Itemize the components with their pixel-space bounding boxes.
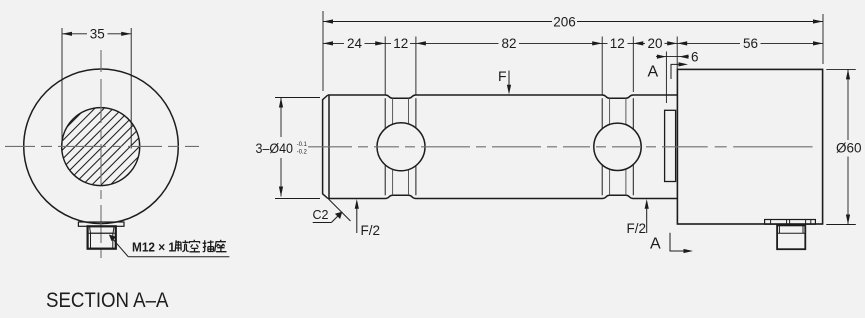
svg-text:F/2: F/2 <box>627 221 647 236</box>
svg-text:Ø60: Ø60 <box>836 140 862 155</box>
extension lines top dims <box>323 11 823 103</box>
outer circle <box>24 69 179 224</box>
svg-text:A: A <box>648 64 659 81</box>
narrow flange between shaft and block <box>665 110 676 181</box>
right connector flange <box>765 220 816 225</box>
svg-text:206: 206 <box>553 14 576 29</box>
hole circle 1 <box>377 123 425 171</box>
dim 35 line + arrows <box>62 33 131 35</box>
right block (O60 housing) <box>677 69 822 224</box>
svg-text:A: A <box>650 235 661 252</box>
glyph cha <box>203 240 214 251</box>
svg-text:35: 35 <box>90 27 105 42</box>
svg-text:-0.1: -0.1 <box>297 141 307 148</box>
hole circle 2 <box>594 123 641 170</box>
svg-text:F/2: F/2 <box>361 223 381 238</box>
F/2 arrow right <box>646 202 648 233</box>
dim 206 <box>323 21 823 23</box>
centerline right view <box>308 146 813 148</box>
connector flange (left view) <box>78 222 124 226</box>
glyph hang <box>175 240 181 251</box>
svg-text:24: 24 <box>347 36 363 51</box>
force F arrow <box>508 71 510 92</box>
dim row 2: 24 / 12 / 82 / 12 / 20 / 56 <box>323 42 823 44</box>
connector body (left view) <box>88 226 116 248</box>
chamfer callout diagonal <box>329 199 351 221</box>
svg-text:20: 20 <box>647 36 662 51</box>
svg-text:-0.2: -0.2 <box>297 148 307 155</box>
svg-text:C2: C2 <box>313 208 329 222</box>
hatched shaft cross-section circle <box>45 44 150 250</box>
leader for M12 label <box>110 236 128 257</box>
svg-text:M12 × 1: M12 × 1 <box>132 240 175 255</box>
right connector body <box>777 225 805 249</box>
dim 3-O40 with tolerance <box>275 98 320 199</box>
top edge with groove dips <box>328 95 678 98</box>
bottom edge with groove dips <box>328 195 678 198</box>
glyph zuo <box>215 240 227 252</box>
dim 35 extension lines <box>62 28 131 149</box>
svg-text:12: 12 <box>393 36 408 51</box>
shaft outline with chamfers and grooves <box>323 95 678 199</box>
centerlines left view <box>5 50 199 262</box>
svg-text:F: F <box>498 68 507 84</box>
C2 leader <box>313 222 332 224</box>
svg-text:6: 6 <box>691 49 699 64</box>
glyph kong <box>189 240 200 252</box>
left end cap with chamfer C2 <box>323 95 328 199</box>
O60 dimension <box>826 69 856 224</box>
svg-text:56: 56 <box>743 36 758 51</box>
dim 6 (outside arrows) <box>656 56 689 58</box>
groove vertical lines (behind holes) <box>385 98 633 195</box>
svg-text:12: 12 <box>610 36 625 51</box>
svg-text:SECTION A–A: SECTION A–A <box>46 288 169 312</box>
svg-text:3–Ø40: 3–Ø40 <box>256 141 294 156</box>
F/2 arrow left <box>356 202 358 233</box>
svg-text:82: 82 <box>501 36 516 51</box>
